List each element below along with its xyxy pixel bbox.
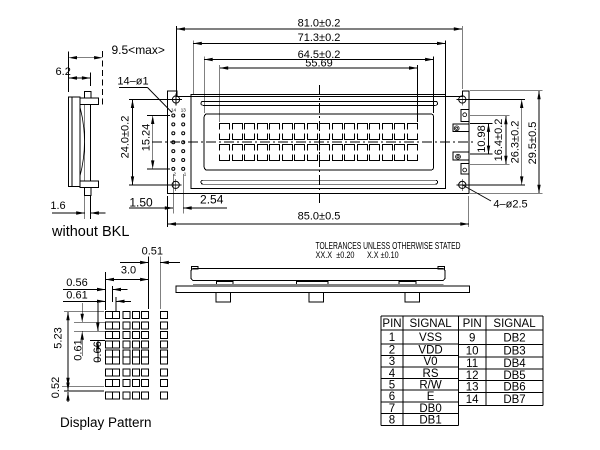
svg-text:55.69: 55.69	[305, 58, 333, 70]
svg-text:1.50: 1.50	[129, 196, 153, 210]
svg-text:71.3±0.2: 71.3±0.2	[298, 32, 341, 44]
svg-text:26.3±0.2: 26.3±0.2	[510, 121, 522, 164]
svg-text:DB4: DB4	[503, 358, 526, 370]
svg-text:7: 7	[389, 403, 395, 415]
svg-text:3: 3	[389, 356, 395, 368]
svg-text:9: 9	[469, 332, 475, 344]
svg-text:15.24: 15.24	[140, 124, 152, 152]
svg-text:11: 11	[466, 358, 478, 370]
svg-text:VDD: VDD	[418, 345, 442, 357]
svg-text:85.0±0.5: 85.0±0.5	[298, 211, 341, 223]
svg-text:5.23: 5.23	[53, 327, 65, 348]
svg-text:9.5<max>: 9.5<max>	[112, 43, 165, 57]
svg-text:1: 1	[389, 332, 395, 344]
svg-text:2.54: 2.54	[200, 193, 224, 207]
svg-text:DB0: DB0	[419, 403, 441, 415]
svg-text:0.56: 0.56	[66, 277, 87, 289]
svg-text:DB6: DB6	[503, 381, 525, 393]
svg-text:2: 2	[389, 345, 395, 357]
svg-text:XX.X ±0.20: XX.X ±0.20	[316, 250, 355, 261]
svg-text:14: 14	[466, 394, 479, 406]
svg-text:SIGNAL: SIGNAL	[409, 318, 452, 330]
svg-text:5: 5	[389, 379, 395, 391]
svg-text:X.X ±0.10: X.X ±0.10	[367, 250, 399, 261]
svg-text:4: 4	[389, 368, 396, 380]
svg-text:DB7: DB7	[503, 394, 525, 406]
svg-text:1.6: 1.6	[50, 200, 65, 212]
svg-text:DB3: DB3	[503, 346, 525, 358]
svg-text:24.0±0.2: 24.0±0.2	[120, 116, 132, 159]
svg-text:6.2: 6.2	[56, 66, 71, 78]
svg-text:14–ø1: 14–ø1	[117, 76, 148, 88]
svg-text:SIGNAL: SIGNAL	[493, 318, 536, 330]
svg-text:DB5: DB5	[503, 370, 525, 382]
svg-text:4–ø2.5: 4–ø2.5	[493, 199, 527, 211]
svg-text:V0: V0	[424, 356, 438, 368]
svg-text:0.61: 0.61	[66, 290, 87, 302]
svg-text:3.0: 3.0	[121, 265, 136, 277]
svg-text:E: E	[427, 391, 435, 403]
svg-text:DB1: DB1	[419, 415, 441, 427]
svg-text:13: 13	[466, 381, 479, 393]
svg-text:Display Pattern: Display Pattern	[60, 415, 152, 430]
svg-text:0.51: 0.51	[142, 246, 163, 258]
svg-text:VSS: VSS	[419, 332, 442, 344]
svg-text:RS: RS	[423, 368, 439, 380]
svg-text:16.4±0.2: 16.4±0.2	[493, 119, 505, 162]
svg-text:13: 13	[181, 108, 187, 113]
svg-text:8: 8	[389, 415, 395, 427]
svg-text:12: 12	[466, 370, 479, 382]
svg-text:0.66: 0.66	[92, 341, 104, 362]
svg-text:without BKL: without BKL	[51, 224, 129, 240]
svg-text:PIN: PIN	[463, 318, 482, 330]
svg-text:10: 10	[466, 346, 479, 358]
svg-text:DB2: DB2	[503, 332, 525, 344]
svg-text:R/W: R/W	[419, 379, 442, 391]
svg-text:81.0±0.2: 81.0±0.2	[298, 18, 341, 30]
svg-text:PIN: PIN	[382, 318, 401, 330]
svg-text:6: 6	[389, 391, 395, 403]
svg-text:10.98: 10.98	[476, 125, 488, 153]
svg-text:0.52: 0.52	[50, 377, 62, 398]
svg-text:29.5±0.5: 29.5±0.5	[527, 122, 539, 165]
svg-text:0.61: 0.61	[73, 339, 85, 360]
